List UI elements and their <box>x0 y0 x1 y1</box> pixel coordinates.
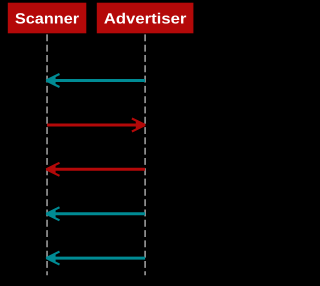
message 5: Advertiser to Scanner (teal) <box>46 252 145 265</box>
message 4: Advertiser to Scanner (teal) <box>46 207 145 220</box>
lifeline Scanner <box>46 34 48 275</box>
participant Scanner <box>8 3 87 34</box>
lifeline Advertiser <box>144 34 146 275</box>
message 3: Advertiser to Scanner (red) <box>46 163 145 176</box>
message 1: Advertiser to Scanner (teal) <box>46 74 145 87</box>
participant Advertiser <box>97 3 194 34</box>
message 2: Scanner to Advertiser (red) <box>47 119 145 132</box>
